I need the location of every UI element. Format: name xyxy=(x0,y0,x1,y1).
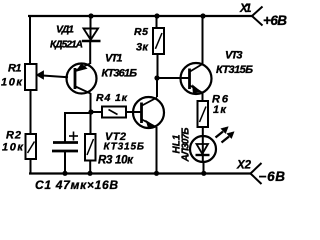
wire bottom rail xyxy=(29,172,251,174)
wire VD1 to VT1 emitter xyxy=(89,41,91,64)
LED emission arrows xyxy=(216,127,235,143)
svg-text:R4 1к: R4 1к xyxy=(96,92,128,104)
wire C1 to bottom rail xyxy=(64,151,66,174)
node R5 rail junction xyxy=(154,13,159,18)
node HL1 ground xyxy=(201,171,206,176)
terminal X2 xyxy=(251,163,262,184)
wire node B to VT3 base xyxy=(157,77,189,79)
transistor VT2 xyxy=(133,97,164,129)
wire VT3 emitter to R6 xyxy=(202,93,204,102)
svg-text:R1: R1 xyxy=(8,63,22,75)
wire left column top (rail to R1) xyxy=(29,15,31,64)
svg-text:−6В: −6В xyxy=(259,169,286,184)
svg-text:1к: 1к xyxy=(213,104,227,116)
svg-text:R3 10к: R3 10к xyxy=(98,155,134,167)
svg-text:С1 47мк×16В: С1 47мк×16В xyxy=(35,178,118,192)
wire node A to R4 xyxy=(91,111,102,113)
svg-text:Х1: Х1 xyxy=(239,3,252,15)
resistor R5 xyxy=(153,28,164,54)
svg-text:АЛ307Б: АЛ307Б xyxy=(181,128,192,163)
svg-text:VТ3: VТ3 xyxy=(225,50,243,62)
svg-text:10к: 10к xyxy=(1,77,23,89)
node diode junction xyxy=(88,13,93,18)
label X1 plus 6V xyxy=(239,3,287,28)
node C1 ground xyxy=(62,171,67,176)
wire top rail xyxy=(28,15,252,17)
terminal X1 xyxy=(252,7,263,26)
node B xyxy=(154,75,159,80)
resistor R4 xyxy=(102,107,126,118)
wire R2 to bottom rail xyxy=(30,159,32,174)
label VD1 value xyxy=(50,24,83,51)
svg-text:КТ315Б: КТ315Б xyxy=(104,142,145,153)
svg-text:10к: 10к xyxy=(2,142,24,154)
label R6 value xyxy=(212,94,229,117)
wire node B to VT2 collector xyxy=(156,78,158,97)
wire R5 to node B xyxy=(157,54,159,78)
svg-text:КТ361Б: КТ361Б xyxy=(102,68,138,80)
label R2 value xyxy=(2,130,24,154)
wire R3 to bottom rail xyxy=(89,161,91,174)
label R1 value xyxy=(1,63,23,89)
wire node A to C1 xyxy=(65,113,91,142)
label R5 value xyxy=(134,26,149,54)
resistor R6 xyxy=(198,101,209,127)
wire R6 to HL1 xyxy=(202,127,204,136)
wire VT3 collector to rail xyxy=(202,16,204,65)
potentiometer R1 xyxy=(25,64,44,90)
diode VD1 xyxy=(82,28,101,41)
transistor VT1 xyxy=(67,64,97,94)
LED HL1 xyxy=(190,136,216,163)
label X2 minus 6V xyxy=(236,160,285,184)
wire rail to R5 xyxy=(156,16,158,28)
wire rail to VD1 xyxy=(90,16,92,28)
svg-text:VТ1: VТ1 xyxy=(105,53,123,65)
capacitor C1 xyxy=(52,132,78,152)
svg-text:R2: R2 xyxy=(6,130,21,142)
node R3 ground xyxy=(87,171,92,176)
wire HL1 to bottom rail xyxy=(203,163,205,174)
svg-text:+6В: +6В xyxy=(263,13,287,28)
label VT3 value xyxy=(216,50,253,77)
resistor R3 xyxy=(85,134,96,161)
label HL1 value (rotated) xyxy=(172,128,192,163)
label VT1 value xyxy=(102,53,138,80)
node VT2 emitter ground xyxy=(154,171,159,176)
svg-text:КТ315Б: КТ315Б xyxy=(216,64,253,76)
svg-text:3к: 3к xyxy=(136,42,149,54)
svg-text:VД1: VД1 xyxy=(56,24,74,36)
svg-text:КД521А: КД521А xyxy=(50,40,83,51)
resistor R2 xyxy=(26,134,37,159)
svg-text:R5: R5 xyxy=(134,26,148,38)
wire VT2 emitter to bottom rail xyxy=(156,127,158,174)
label VT2 value xyxy=(104,131,145,153)
transistor VT3 xyxy=(181,63,212,94)
node A collector junction xyxy=(88,109,93,114)
wire R1 to R2 xyxy=(30,90,32,134)
wire R1 wiper to VT1 base xyxy=(43,76,69,78)
wire R4 to VT2 base xyxy=(126,111,141,113)
node VT3 collector rail junction xyxy=(200,13,205,18)
svg-text:Х2: Х2 xyxy=(236,160,252,172)
wire VT1 collector down xyxy=(90,93,92,134)
